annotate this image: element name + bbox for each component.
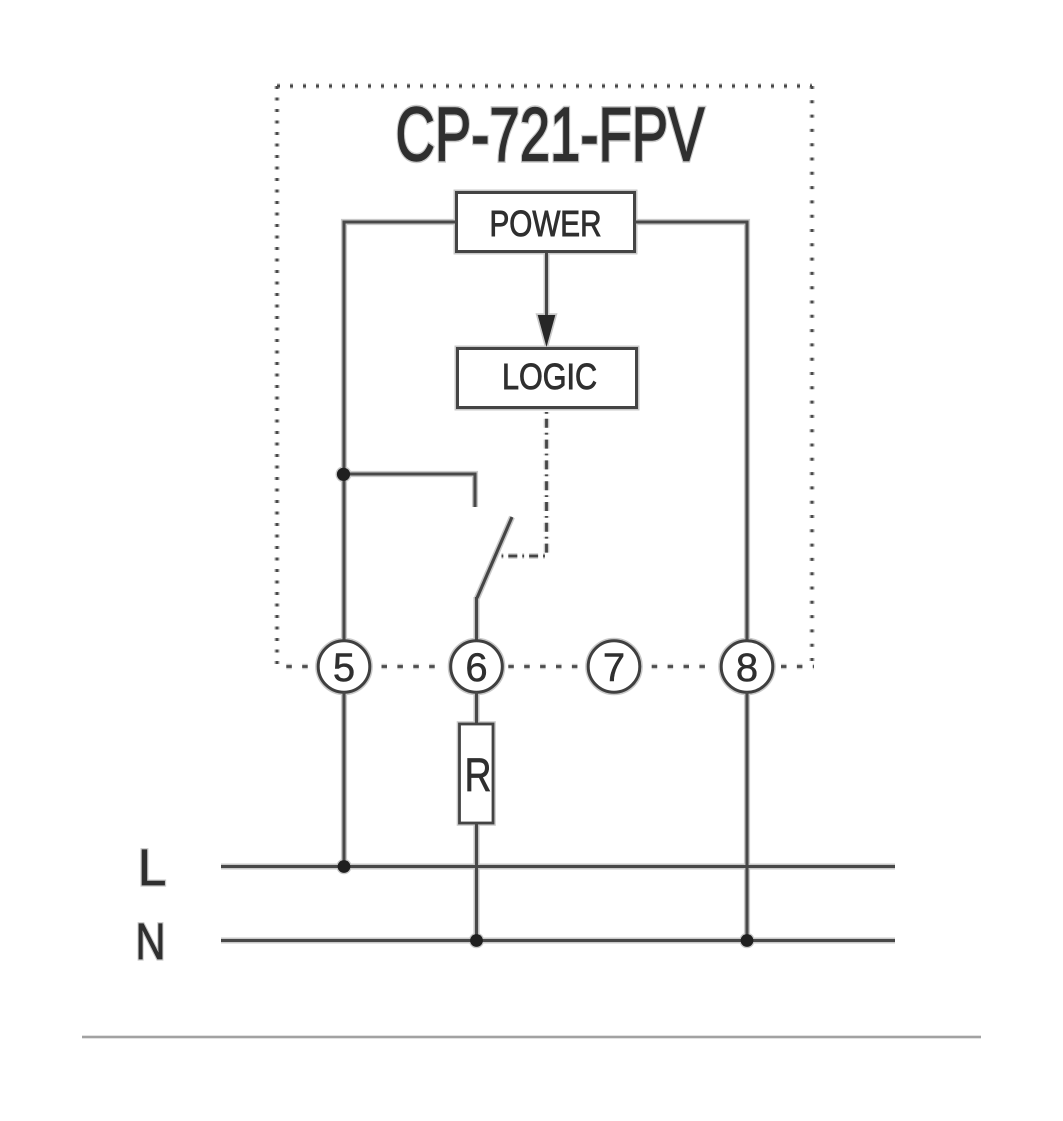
device enclosure dashed border (top, left, right) <box>277 86 812 666</box>
junction node on wire to terminal 5 <box>337 468 350 481</box>
terminal 8 <box>721 641 773 693</box>
switch S1 fixed contact wire <box>344 474 475 507</box>
terminal 5 <box>318 641 370 693</box>
wire terminal 6 to resistor <box>475 692 478 724</box>
junction node on N bus (terminal 6 branch) <box>470 934 483 947</box>
L bus line <box>221 865 895 868</box>
switch S1 blade <box>477 517 512 598</box>
wire resistor to N bus <box>475 823 478 941</box>
svg-text:L: L <box>138 839 166 896</box>
svg-text:POWER: POWER <box>490 203 602 244</box>
terminal 6 <box>451 641 503 693</box>
svg-text:8: 8 <box>736 646 758 690</box>
svg-text:6: 6 <box>465 646 487 690</box>
svg-text:LOGIC: LOGIC <box>502 356 597 397</box>
svg-text:5: 5 <box>333 646 355 690</box>
LOGIC box U2 <box>458 349 637 408</box>
N bus line <box>221 939 895 942</box>
svg-text:N: N <box>136 913 166 970</box>
wire POWER right to terminal 8 <box>635 222 748 641</box>
wire POWER left to terminal 5 <box>344 222 457 641</box>
svg-text:7: 7 <box>603 646 625 690</box>
svg-text:R: R <box>465 749 492 802</box>
arrow POWER to LOGIC <box>538 252 556 348</box>
resistor R <box>460 724 494 823</box>
dash-dot control link LOGIC to switch <box>499 408 547 557</box>
junction node on N bus (terminal 8 branch) <box>741 934 754 947</box>
terminal 7 <box>588 641 640 693</box>
bottom separator line <box>82 1036 981 1038</box>
POWER box U1 <box>457 193 635 252</box>
wire terminal 5 to L bus <box>342 692 345 867</box>
svg-text:CP-721-FPV: CP-721-FPV <box>396 93 705 178</box>
terminal row dotted line <box>286 665 814 668</box>
wire switch to terminal 6 <box>475 597 478 641</box>
wire terminal 8 to N bus <box>745 692 748 941</box>
junction node on L bus <box>338 860 351 873</box>
